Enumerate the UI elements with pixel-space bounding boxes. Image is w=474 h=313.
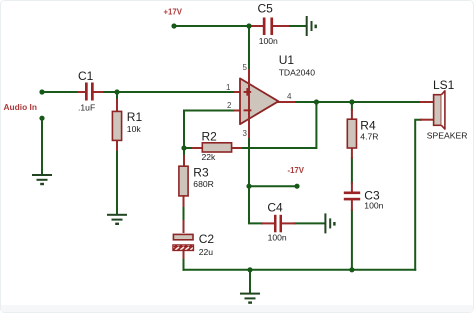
svg-text:2: 2 — [227, 101, 232, 110]
svg-text:R2: R2 — [202, 130, 218, 144]
svg-text:C1: C1 — [78, 69, 94, 83]
svg-text:LS1: LS1 — [433, 78, 455, 92]
svg-text:5: 5 — [243, 63, 248, 72]
svg-text:R3: R3 — [193, 166, 209, 180]
svg-text:C2: C2 — [199, 232, 215, 246]
svg-text:C5: C5 — [258, 2, 274, 16]
svg-text:22k: 22k — [202, 152, 217, 162]
svg-text:100n: 100n — [268, 233, 287, 243]
svg-text:Audio In: Audio In — [4, 102, 38, 112]
svg-text:10k: 10k — [127, 124, 142, 134]
svg-text:4: 4 — [287, 92, 292, 101]
svg-text:100n: 100n — [259, 36, 278, 46]
svg-text:SPEAKER: SPEAKER — [427, 131, 468, 141]
svg-text:22u: 22u — [199, 247, 214, 257]
svg-text:-17V: -17V — [288, 166, 305, 175]
svg-text:+17V: +17V — [164, 8, 183, 17]
svg-text:680R: 680R — [193, 179, 214, 189]
svg-text:R1: R1 — [127, 110, 143, 124]
svg-text:4.7R: 4.7R — [360, 132, 378, 142]
svg-text:C4: C4 — [267, 200, 283, 214]
svg-text:100n: 100n — [364, 200, 383, 210]
svg-text:U1: U1 — [279, 53, 295, 67]
svg-text:TDA2040: TDA2040 — [279, 68, 316, 78]
svg-text:.1uF: .1uF — [78, 103, 95, 113]
svg-text:3: 3 — [243, 129, 248, 138]
svg-text:1: 1 — [226, 83, 231, 92]
svg-text:R4: R4 — [360, 119, 376, 133]
